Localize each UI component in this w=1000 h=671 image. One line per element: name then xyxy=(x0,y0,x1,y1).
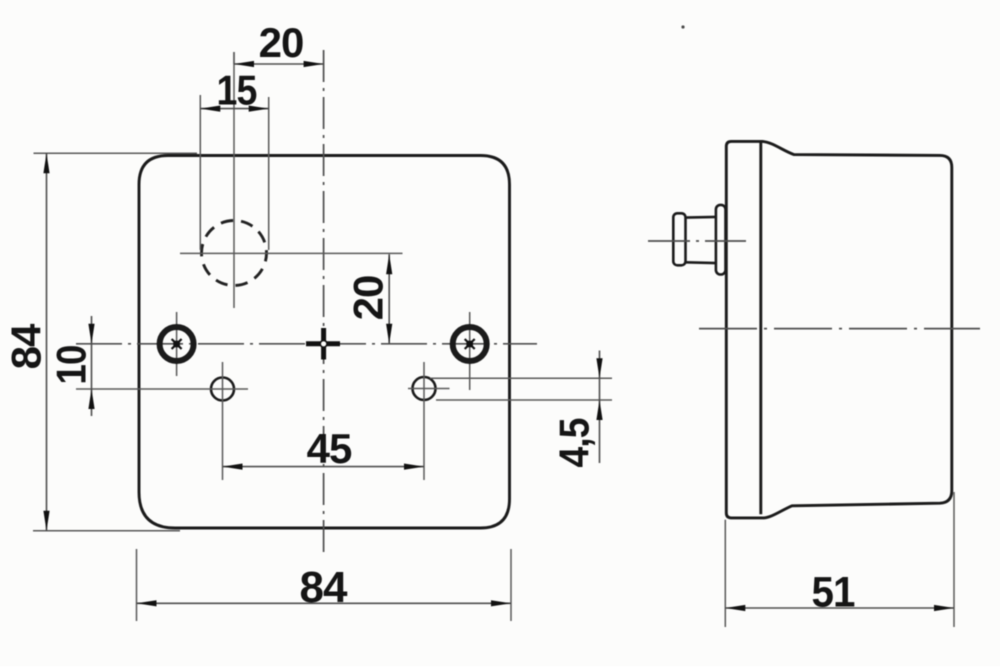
knob flange xyxy=(716,205,726,275)
svg-text:20: 20 xyxy=(345,276,392,321)
dim 15 line xyxy=(200,108,268,110)
dim 51 line xyxy=(725,607,954,609)
dim 10 arrows (outside) xyxy=(88,324,94,344)
dim 84 bottom arrows xyxy=(137,600,157,606)
side view: lens/plate parting line xyxy=(759,141,762,514)
screw S2 ring xyxy=(453,327,487,361)
dim 84 left line xyxy=(46,153,48,531)
screw S1 ring xyxy=(160,327,194,361)
knob cap xyxy=(673,213,685,265)
dim 15 arrows xyxy=(200,106,220,112)
scan speckle xyxy=(681,25,684,28)
front view: lamp housing outline xyxy=(139,156,510,529)
dim 84 bottom line xyxy=(137,602,512,604)
centerline of dashed circle vertical xyxy=(233,52,235,308)
svg-text:4,5: 4,5 xyxy=(551,418,598,468)
dim 4,5 arrows (outside) xyxy=(596,358,602,378)
screw S2 cross xyxy=(465,339,475,349)
svg-text:20: 20 xyxy=(259,19,304,66)
center mark cross xyxy=(306,328,340,360)
dim 84 left: extension top xyxy=(34,152,198,154)
screw S1 centerline vertical xyxy=(176,312,178,376)
dim 20 top: extension left (circle center ext) xyxy=(233,52,235,64)
small hole H1 dia 4.5 xyxy=(211,378,234,401)
screw S1 cross xyxy=(172,339,182,349)
knob neck top line xyxy=(686,216,717,219)
dim 45 arrows xyxy=(223,464,243,470)
svg-text:15: 15 xyxy=(217,67,258,114)
screw S2 centerline vertical xyxy=(469,312,471,390)
dim 84 left arrows xyxy=(43,153,49,173)
dim 20 top arrows xyxy=(234,61,254,67)
dim 20 vertical arrows xyxy=(386,254,392,274)
svg-text:45: 45 xyxy=(307,425,352,472)
knob neck bottom line xyxy=(686,261,717,264)
centerline horizontal main xyxy=(76,343,537,345)
svg-text:51: 51 xyxy=(812,569,855,617)
hole H2 horizontal centerline xyxy=(408,388,450,390)
side view centerline xyxy=(699,328,980,330)
dim 20 vertical (circle to center): line xyxy=(388,254,390,344)
hole H1 vertical centerline xyxy=(222,362,224,480)
dim 15: extension lines xyxy=(199,95,201,250)
centerline vertical main xyxy=(323,50,325,554)
side view body outline xyxy=(726,141,952,518)
dim 10: dimension line vertical xyxy=(91,316,93,416)
dim 20 top line xyxy=(234,63,324,65)
knob centerline xyxy=(648,240,746,242)
svg-text:84: 84 xyxy=(3,323,50,369)
dim 51: extension lines xyxy=(724,520,726,627)
svg-text:10: 10 xyxy=(48,346,95,385)
dim 51 arrows xyxy=(725,605,745,611)
dashed circle: cable entry hole dia 15 xyxy=(202,221,267,286)
dim 84 left: extension bottom xyxy=(33,530,180,532)
centerline of dashed circle horizontal xyxy=(180,252,403,254)
svg-text:84: 84 xyxy=(300,563,348,612)
dim 84 bottom: extension lines xyxy=(136,549,138,621)
small hole H2 dia 4.5 xyxy=(413,377,436,400)
dim 4,5: extension lines xyxy=(430,377,612,379)
dim 45 line xyxy=(223,466,425,468)
hole H2 vertical centerline xyxy=(423,362,425,480)
hole H1 horizontal centerline / ext for 10 xyxy=(76,388,248,390)
dim 4,5 line xyxy=(599,351,601,464)
